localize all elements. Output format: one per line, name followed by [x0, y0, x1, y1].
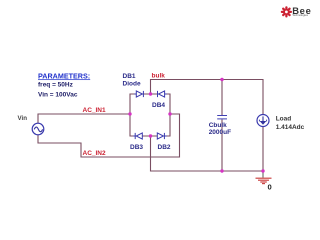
svg-text:Diode: Diode — [123, 81, 141, 88]
svg-text:1.414Adc: 1.414Adc — [276, 124, 305, 131]
svg-text:AC_IN1: AC_IN1 — [83, 107, 107, 114]
svg-text:DB4: DB4 — [152, 102, 165, 109]
svg-text:DB3: DB3 — [130, 144, 143, 151]
svg-text:bulk: bulk — [152, 73, 166, 80]
svg-text:Vin: Vin — [18, 115, 28, 122]
svg-text:PARAMETERS:: PARAMETERS: — [38, 71, 90, 80]
svg-text:Technologies: Technologies — [292, 13, 308, 17]
svg-text:Vin = 100Vac: Vin = 100Vac — [38, 91, 78, 98]
svg-text:2000uF: 2000uF — [209, 129, 231, 136]
svg-text:AC_IN2: AC_IN2 — [83, 150, 107, 157]
svg-text:0: 0 — [268, 183, 272, 192]
svg-text:DB1: DB1 — [123, 73, 136, 80]
svg-text:Load: Load — [276, 116, 292, 123]
svg-text:DB2: DB2 — [158, 144, 171, 151]
svg-text:freq = 50Hz: freq = 50Hz — [38, 82, 74, 89]
